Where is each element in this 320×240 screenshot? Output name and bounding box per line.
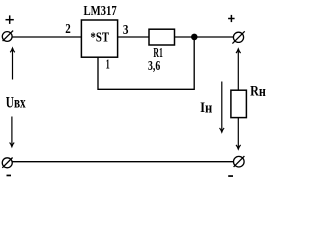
svg-text:*ST: *ST [90, 31, 109, 46]
wire Rn down to negative terminal (arrow down) [236, 118, 241, 150]
resistor Rn (load) [231, 90, 247, 117]
svg-text:3: 3 [123, 23, 129, 38]
svg-text:Uвх: Uвх [6, 94, 26, 111]
terminal X1 (+ input) [2, 31, 13, 42]
svg-text:2: 2 [65, 22, 71, 37]
label + (output) [228, 15, 235, 22]
terminal X4 (- output) [234, 156, 245, 167]
label - (output) [228, 175, 233, 177]
svg-text:LM317: LM317 [84, 4, 117, 19]
terminal X2 (+ output) [232, 31, 244, 43]
svg-text:1: 1 [106, 57, 110, 72]
svg-text:3,6: 3,6 [148, 59, 160, 74]
voltage Uvx annotation: up arrow [10, 48, 15, 80]
current In annotation arrow [220, 82, 225, 133]
wire input to U1 pin2 [12, 36, 81, 38]
wire output terminal down to Rn (arrow up) [236, 49, 241, 90]
terminal X3 (- input) [2, 158, 12, 168]
resistor R1 [149, 29, 175, 45]
voltage Uvx annotation: down arrow [10, 117, 15, 147]
wire R1 to output terminal [175, 36, 234, 38]
label - (input) [7, 175, 12, 177]
svg-text:Iн: Iн [200, 100, 212, 117]
wire U1 pin3 to R1 [118, 36, 149, 38]
wire U1 pin1 feedback to node A [98, 38, 194, 89]
label + (input) [6, 15, 14, 24]
bottom rail wire [12, 161, 233, 163]
regulator U1 LM317 box [81, 20, 117, 57]
svg-text:Rн: Rн [250, 83, 266, 100]
node A junction dot [191, 34, 198, 41]
